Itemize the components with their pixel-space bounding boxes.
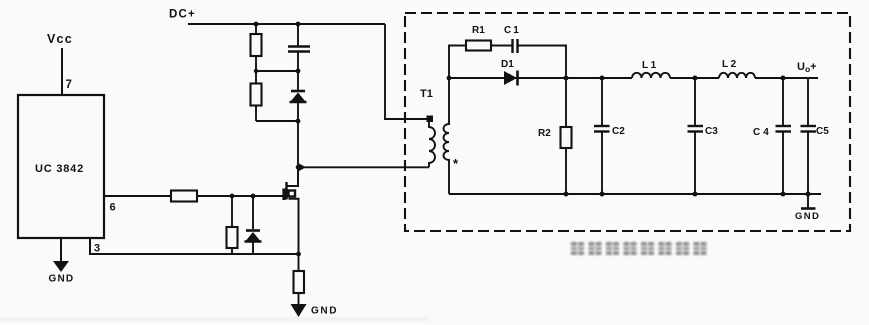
svg-text:DC+: DC+ xyxy=(169,9,196,21)
capacitor C5 xyxy=(807,78,809,126)
wire to zener xyxy=(252,196,254,229)
svg-text:C3: C3 xyxy=(705,126,718,137)
wire C1 back down to rail xyxy=(518,46,566,79)
junction C2 top xyxy=(600,76,605,81)
junction C2 bottom xyxy=(600,192,605,197)
junction snubber tie left xyxy=(254,69,258,73)
transistor Q1 power MOSFET xyxy=(284,167,299,254)
node drain junction with arrow xyxy=(296,165,301,170)
wire drain node to transformer primary bottom xyxy=(298,166,429,168)
svg-text:GND: GND xyxy=(49,274,75,285)
junction C4 bottom xyxy=(781,192,786,197)
resistor (current sense, vertical) xyxy=(294,271,305,293)
ground (source return) xyxy=(291,304,307,317)
junction snubber tie right xyxy=(296,69,301,74)
ground (below UC3842) xyxy=(60,238,62,263)
svg-text:C1: C1 xyxy=(504,25,521,36)
junction C4 top xyxy=(781,76,786,81)
wire secondary top rail xyxy=(449,77,504,79)
wire xyxy=(255,71,257,84)
resistor (snubber upper, vertical) xyxy=(251,34,262,56)
wire xyxy=(255,56,257,71)
wire Vcc to pin 7 xyxy=(61,48,63,96)
resistor (gate pull-down, vertical) xyxy=(227,227,238,248)
wire L1 to L2 xyxy=(670,77,719,79)
wire diode to bottom tie xyxy=(297,103,299,122)
transformer T1 primary winding xyxy=(429,119,435,167)
wire snubber left branch upper xyxy=(255,24,257,34)
wire to sense resistor xyxy=(298,254,300,271)
wire secondary bottom rail xyxy=(449,193,821,195)
dashed box output filter xyxy=(405,13,850,231)
diode D1 rectifier xyxy=(504,71,518,86)
wire pin 6 gate drive xyxy=(104,195,171,197)
capacitor C3 xyxy=(694,78,696,126)
junction C5 bottom xyxy=(806,192,811,197)
capacitor C1 xyxy=(513,39,518,53)
svg-text:L1: L1 xyxy=(642,60,659,71)
transformer T1 secondary winding xyxy=(444,78,449,194)
wire snubber cap branch xyxy=(297,24,299,46)
inductor L2 xyxy=(719,73,755,78)
capacitor C2 xyxy=(601,78,603,126)
wire xyxy=(255,106,257,122)
op-amp U1 UC3842 controller box xyxy=(18,95,104,238)
svg-text:GND: GND xyxy=(311,306,338,317)
inductor L1 xyxy=(632,73,670,78)
junction secondary top xyxy=(447,76,452,81)
wire snubber middle tie xyxy=(256,70,298,72)
capacitor (snubber) xyxy=(288,47,310,52)
svg-text:L2: L2 xyxy=(722,59,739,70)
caption 输出整流滤波电路 (blurred) xyxy=(571,242,707,255)
svg-text:3: 3 xyxy=(94,243,100,255)
svg-text:7: 7 xyxy=(66,79,72,91)
wire L2 to output xyxy=(755,77,818,79)
capacitor C4 xyxy=(782,78,784,126)
wire xyxy=(297,52,299,72)
svg-text:6: 6 xyxy=(110,202,116,214)
svg-text:UC 3842: UC 3842 xyxy=(35,163,84,175)
wire RC snubber upper branch xyxy=(449,46,466,79)
svg-text:R2: R2 xyxy=(538,128,551,139)
wire to clamp diode xyxy=(297,71,299,90)
diode (clamp, cathode up) xyxy=(290,91,307,102)
transformer T1 primary polarity dot xyxy=(427,116,434,123)
wire resistor to gate xyxy=(197,195,284,197)
junction top rail snubber C xyxy=(296,22,301,27)
svg-text:Vcc: Vcc xyxy=(47,32,73,46)
resistor R1 xyxy=(466,41,491,51)
wire D1 to output xyxy=(504,77,632,79)
wire zener to return rail xyxy=(252,242,254,254)
junction snubber bottom xyxy=(296,119,301,124)
wire R1 to C1 xyxy=(491,45,512,47)
svg-text:C5: C5 xyxy=(816,126,829,137)
svg-text:D1: D1 xyxy=(501,59,514,70)
junction R2 top xyxy=(564,76,569,81)
junction C3 top xyxy=(693,76,698,81)
svg-text:C2: C2 xyxy=(612,126,625,137)
junction C3 bottom xyxy=(693,192,698,197)
junction source on return rail xyxy=(296,252,301,257)
junction top rail snubber R xyxy=(254,22,259,27)
wire DC+ down to transformer primary xyxy=(385,24,427,119)
wire DC+ top rail xyxy=(188,23,385,25)
resistor (gate drive, horizontal) xyxy=(171,191,197,202)
wire pin 3 return rail xyxy=(90,239,299,254)
ground (output return) xyxy=(807,194,809,208)
wire snubber to drain node xyxy=(297,121,299,167)
resistor R2 xyxy=(565,78,567,127)
wire resistor to return rail xyxy=(231,248,233,254)
svg-text:R1: R1 xyxy=(472,25,485,36)
junction R2 bottom xyxy=(564,192,569,197)
wire to pull-down resistor xyxy=(231,196,233,227)
wire resistor to ground xyxy=(298,293,300,306)
svg-text:C4: C4 xyxy=(753,127,772,138)
junction gate branch 2 xyxy=(251,194,256,199)
zener diode (gate protection) xyxy=(245,231,262,242)
svg-text:GND: GND xyxy=(795,211,820,222)
wire snubber bottom tie xyxy=(256,120,298,122)
svg-text:T1: T1 xyxy=(420,88,433,100)
resistor (snubber lower, vertical) xyxy=(251,84,262,106)
junction gate branch 1 xyxy=(230,194,235,199)
